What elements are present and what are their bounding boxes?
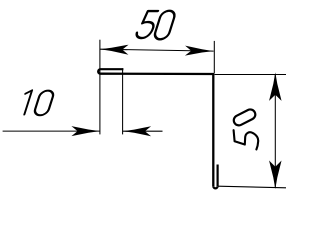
dim text 10: digit 1 — [19, 90, 32, 114]
arrow left of top dim — [100, 44, 129, 54]
extension line D (right, top horizontal) — [215, 74, 286, 76]
dimension line 50 right (vertical) — [274, 75, 276, 188]
top hem line of profile — [100, 68, 123, 70]
dimension line 10 left segment — [3, 130, 100, 132]
dimension line 50 top — [100, 49, 214, 51]
dimension line 10 right segment — [123, 130, 163, 132]
dim text 50 right: digit 0 (rotated) — [232, 108, 257, 127]
bottom hem fold arc — [213, 186, 217, 188]
dim text 50 top: digit 0 — [153, 11, 176, 40]
extension line B (hem end) — [122, 68, 124, 134]
extension line A (left, shared) — [99, 40, 101, 135]
top hem fold arc — [98, 69, 100, 74]
arrow at ext B (10 dim, pointing left) — [123, 126, 152, 136]
dim text 50 top: digit 5 — [135, 11, 158, 38]
dim text 50 right: digit 5 (rotated) — [234, 130, 259, 149]
dim text 10: digit 0 — [33, 91, 54, 116]
extension line E (right, bottom horizontal) — [218, 186, 286, 188]
extension line C (top right) — [213, 41, 215, 73]
arrow at ext A (10 dim, pointing right) — [71, 126, 100, 136]
right hem line — [217, 165, 219, 187]
arrow up (50 right) — [269, 72, 282, 101]
main profile: top leg and right leg — [100, 74, 213, 187]
arrow down (50 right) — [269, 161, 282, 190]
arrow right of top dim — [185, 46, 214, 56]
